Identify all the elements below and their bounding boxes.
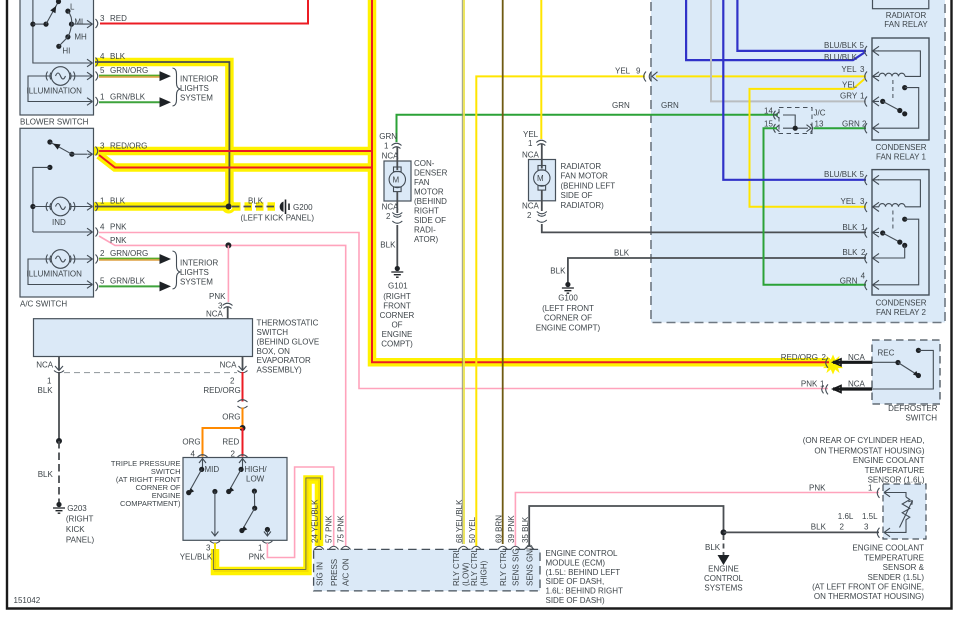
svg-text:G203: G203 xyxy=(67,504,87,513)
A/C illumination lamp xyxy=(46,250,75,269)
relay1 coil xyxy=(878,51,920,77)
svg-text:ORG: ORG xyxy=(182,438,200,447)
svg-text:MOTOR: MOTOR xyxy=(414,188,444,197)
sensor internal resistor xyxy=(888,493,913,533)
J/C pin13 arc xyxy=(807,124,813,133)
svg-text:YEL/BLK: YEL/BLK xyxy=(180,553,213,562)
A/C pin4 wire inside xyxy=(33,228,93,236)
svg-text:1.6L: 1.6L xyxy=(838,512,854,521)
svg-text:151042: 151042 xyxy=(14,596,41,605)
svg-text:CONDENSER: CONDENSER xyxy=(875,143,926,152)
svg-text:5: 5 xyxy=(100,66,105,75)
interior lights brace (AC) xyxy=(173,251,181,289)
svg-text:BOX, ON: BOX, ON xyxy=(257,347,291,356)
wire YEL riser ECM pin50 to relay1 pin3 xyxy=(476,76,645,546)
wire RED to pressure pin2 xyxy=(222,428,242,459)
radiator fan motor M2 xyxy=(529,144,556,212)
svg-text:3: 3 xyxy=(100,14,105,23)
svg-text:YEL: YEL xyxy=(842,81,858,90)
svg-text:4: 4 xyxy=(100,52,105,61)
wire ORG to pressure pin4 xyxy=(182,428,242,459)
svg-text:NCA: NCA xyxy=(522,202,540,211)
wire 5 GRN/ORG (blower) xyxy=(99,71,171,81)
svg-text:ENGINE COOLANT: ENGINE COOLANT xyxy=(852,544,924,553)
J/C pin14 arc xyxy=(774,111,780,120)
svg-text:ORG: ORG xyxy=(222,413,240,422)
svg-text:SIDE OF DASH,: SIDE OF DASH, xyxy=(546,577,605,586)
svg-text:LIGHTS: LIGHTS xyxy=(180,268,209,277)
svg-text:2: 2 xyxy=(386,212,391,221)
svg-text:PANEL): PANEL) xyxy=(66,536,95,545)
svg-text:2: 2 xyxy=(100,249,105,258)
wire BRN riser ECM pin69 xyxy=(502,0,504,544)
pressure switch HIGH/LOW contact xyxy=(226,458,246,495)
svg-text:BLU/BLK: BLU/BLK xyxy=(824,170,858,179)
condenser fan relay 1 box xyxy=(872,38,929,140)
inline connector on RED/ORG xyxy=(238,400,248,409)
svg-text:GRN: GRN xyxy=(612,101,630,110)
svg-text:GRN: GRN xyxy=(842,120,860,129)
svg-text:DENSER: DENSER xyxy=(414,169,448,178)
svg-text:1.5L: 1.5L xyxy=(862,512,878,521)
svg-text:BLK: BLK xyxy=(550,267,566,276)
defroster NCA wire upper xyxy=(826,358,872,368)
svg-text:INTERIOR: INTERIOR xyxy=(180,259,218,268)
svg-text:69 BRN: 69 BRN xyxy=(495,515,504,543)
svg-text:75 PNK: 75 PNK xyxy=(337,515,346,543)
svg-text:BLK: BLK xyxy=(842,248,858,257)
svg-text:SYSTEM: SYSTEM xyxy=(180,94,213,103)
svg-text:ON THERMOSTAT HOUSING): ON THERMOSTAT HOUSING) xyxy=(814,447,924,456)
defroster switch internals xyxy=(872,348,933,389)
blower pin3 arrow xyxy=(87,20,93,28)
svg-text:G101: G101 xyxy=(388,282,408,291)
svg-text:2: 2 xyxy=(527,211,532,220)
svg-text:SIDE OF DASH): SIDE OF DASH) xyxy=(546,596,605,605)
engine coolant temperature sensor box xyxy=(883,484,926,539)
svg-text:GRN: GRN xyxy=(840,277,858,286)
wire 1 GRN/BLK (blower) xyxy=(99,97,171,107)
wire GRY to relay1 pin1 xyxy=(711,0,866,101)
J/C internal wires xyxy=(783,115,808,131)
wire 2 RED/ORG below thermostatic xyxy=(203,372,242,402)
wire RED/ORG lower branch xyxy=(99,155,372,168)
svg-text:SENS GND: SENS GND xyxy=(525,544,534,586)
wire YEL second (relay1 pin3 to relay2 pin3) xyxy=(750,79,867,207)
svg-text:14: 14 xyxy=(764,107,773,116)
wire PNK ECM pin39 to coolant sensor pin1 xyxy=(515,493,879,547)
wire YEL/BLK pressure pin3 to ECM pin24 xyxy=(213,478,320,571)
thermostatic pin 3 top connector xyxy=(206,292,233,319)
A/C switch lower contact wire xyxy=(33,165,53,232)
svg-text:COMPT): COMPT) xyxy=(381,340,413,349)
blower switch common wire xyxy=(30,0,88,63)
wire BLU/BLK second to relay1 pin5 xyxy=(686,0,864,60)
wire BLK dashed to engine control systems xyxy=(718,535,730,565)
svg-text:FAN RELAY 2: FAN RELAY 2 xyxy=(876,308,927,317)
wire 2 GRN/ORG (AC) xyxy=(99,254,171,264)
svg-text:CORNER OF: CORNER OF xyxy=(544,314,592,323)
wire 3 RED/ORG upper (AC to vertical) xyxy=(99,150,372,152)
svg-text:GRN: GRN xyxy=(379,132,397,141)
svg-text:4: 4 xyxy=(861,272,866,281)
svg-text:35 BLK: 35 BLK xyxy=(521,516,530,543)
pressure switch pin3 internal contact xyxy=(211,489,218,536)
defroster NCA wire lower xyxy=(822,384,872,394)
svg-text:2: 2 xyxy=(230,377,235,386)
svg-text:KICK: KICK xyxy=(66,525,85,534)
J/C pin15 arc xyxy=(774,124,780,133)
relay1 pin arcs with arrows xyxy=(865,46,879,133)
svg-text:OF: OF xyxy=(391,321,402,330)
svg-text:(1.5L: BEHIND LEFT: (1.5L: BEHIND LEFT xyxy=(546,568,621,577)
svg-text:SWITCH: SWITCH xyxy=(257,328,289,337)
svg-text:(BEHIND LEFT: (BEHIND LEFT xyxy=(561,181,616,190)
svg-text:24 YEL/BLK: 24 YEL/BLK xyxy=(311,499,320,543)
svg-text:RED: RED xyxy=(110,14,127,23)
svg-text:RLY CTRL: RLY CTRL xyxy=(452,548,461,586)
svg-text:L: L xyxy=(70,3,75,12)
svg-text:SYSTEMS: SYSTEMS xyxy=(704,584,742,593)
svg-text:(BEHIND: (BEHIND xyxy=(414,197,447,206)
svg-text:ENGINE: ENGINE xyxy=(708,565,739,574)
defroster switch box xyxy=(872,340,940,404)
svg-text:A/C ON: A/C ON xyxy=(342,558,351,586)
svg-text:57 PNK: 57 PNK xyxy=(325,515,334,543)
svg-text:M: M xyxy=(537,174,544,183)
svg-text:BLK: BLK xyxy=(380,241,396,250)
svg-text:(RIGHT: (RIGHT xyxy=(66,515,94,524)
blower pin arcs xyxy=(96,19,98,106)
wire BLK G100 to relay2 pin2 xyxy=(568,258,866,282)
svg-text:SYSTEM: SYSTEM xyxy=(180,278,213,287)
svg-text:IND: IND xyxy=(52,218,66,227)
wire GRN J/C pin15 to relay2 pin4 xyxy=(764,128,867,285)
svg-text:BLK: BLK xyxy=(614,249,630,258)
pressure pin3 bottom arc xyxy=(210,541,220,543)
svg-text:1.6L: BEHIND RIGHT: 1.6L: BEHIND RIGHT xyxy=(546,587,623,596)
svg-text:BLK: BLK xyxy=(38,386,54,395)
svg-text:3: 3 xyxy=(864,523,869,532)
svg-text:RADIATOR: RADIATOR xyxy=(886,11,927,20)
svg-text:MH: MH xyxy=(74,33,87,42)
svg-text:GRN/ORG: GRN/ORG xyxy=(110,66,148,75)
svg-text:BLK: BLK xyxy=(110,52,126,61)
svg-text:NCA: NCA xyxy=(522,151,540,160)
inline connector 9 on YEL xyxy=(615,67,658,82)
svg-text:(RIGHT: (RIGHT xyxy=(383,292,411,301)
svg-text:RED/ORG: RED/ORG xyxy=(110,142,147,151)
svg-text:13: 13 xyxy=(815,120,824,129)
svg-text:A/C SWITCH: A/C SWITCH xyxy=(20,300,67,309)
svg-text:NCA: NCA xyxy=(206,310,224,319)
svg-text:ENGINE: ENGINE xyxy=(382,330,413,339)
svg-text:FAN MOTOR: FAN MOTOR xyxy=(561,172,609,181)
svg-text:(LEFT FRONT: (LEFT FRONT xyxy=(542,304,594,313)
svg-text:G200: G200 xyxy=(293,203,313,212)
svg-text:ENGINE COMPT): ENGINE COMPT) xyxy=(536,323,601,332)
svg-text:RED: RED xyxy=(222,438,239,447)
sensor pin1 arc xyxy=(877,488,891,498)
wire 1 BLK (AC) xyxy=(95,204,232,210)
svg-text:1: 1 xyxy=(860,92,865,101)
pressure pin1 bottom arc xyxy=(262,541,272,543)
wire PNK lower branch to ECM pin 75 xyxy=(99,236,346,546)
A/C illumination loop wire xyxy=(28,255,93,288)
svg-text:1: 1 xyxy=(100,197,105,206)
highlight RED/ORG circuit (AC pin3 to defroster) xyxy=(93,0,830,362)
radiator fan relay box (cut off at top) xyxy=(867,0,929,9)
svg-text:ML: ML xyxy=(74,18,86,27)
radiator fan motor pin2 connector xyxy=(522,202,547,223)
svg-text:1: 1 xyxy=(100,93,105,102)
svg-text:RED/ORG: RED/ORG xyxy=(203,386,240,395)
wire 1 BLK to G203 xyxy=(38,372,63,502)
wire YEL connector to relay1 pin3 xyxy=(656,75,866,77)
svg-text:(ON REAR OF CYLINDER HEAD,: (ON REAR OF CYLINDER HEAD, xyxy=(803,436,925,445)
svg-text:YEL: YEL xyxy=(841,197,857,206)
A/C pin arcs xyxy=(96,147,98,292)
condenser fan motor GRN wire to J/C pin14 xyxy=(397,115,779,142)
svg-text:SENS SIG: SENS SIG xyxy=(512,548,521,586)
svg-text:DEFROSTER: DEFROSTER xyxy=(888,404,938,413)
wire BLK dashed to G200 xyxy=(232,206,276,208)
highlight BLK circuit (blower+AC to G200) xyxy=(93,62,277,212)
svg-text:EVAPORATOR: EVAPORATOR xyxy=(257,356,311,365)
svg-text:RIGHT: RIGHT xyxy=(414,207,439,216)
svg-text:NCA: NCA xyxy=(220,361,238,370)
svg-text:ILLUMINATION: ILLUMINATION xyxy=(27,270,83,279)
svg-text:PNK: PNK xyxy=(801,380,818,389)
svg-text:1: 1 xyxy=(384,142,389,151)
svg-text:GRN: GRN xyxy=(661,101,679,110)
wire 4 BLK (blower) xyxy=(95,62,229,207)
blower illumination loop wire xyxy=(28,72,93,105)
svg-text:RLY CTRL: RLY CTRL xyxy=(470,548,479,586)
interior lights brace (blower) xyxy=(173,68,181,106)
svg-text:PRESS: PRESS xyxy=(330,559,339,586)
svg-text:2: 2 xyxy=(840,523,845,532)
highlight YEL/BLK circuit (pressure sw pin3 to ECM pin24) xyxy=(215,480,319,572)
G200 ground connector symbol xyxy=(280,200,289,215)
svg-text:PNK: PNK xyxy=(110,223,127,232)
relay2 switch xyxy=(879,211,919,285)
wire YEL/BLK riser ECM pin68 xyxy=(462,0,464,544)
wire 3 RED (blower) xyxy=(100,0,308,24)
svg-text:FAN: FAN xyxy=(414,178,430,187)
svg-text:TEMPERATURE: TEMPERATURE xyxy=(865,466,925,475)
svg-text:9: 9 xyxy=(636,67,641,76)
svg-text:15: 15 xyxy=(764,120,773,129)
relay2 coil xyxy=(878,180,920,207)
wire PNK pressure pin1 to ECM pin57 xyxy=(267,467,333,558)
svg-text:MID: MID xyxy=(205,465,220,474)
svg-text:5: 5 xyxy=(860,170,865,179)
relay2 pin arcs with arrows xyxy=(865,175,879,290)
svg-text:1: 1 xyxy=(528,139,533,148)
condenser fan motor pin1 arc xyxy=(392,143,402,148)
svg-text:3: 3 xyxy=(860,65,865,74)
svg-text:39 PNK: 39 PNK xyxy=(507,515,516,543)
svg-text:COMPARTMENT): COMPARTMENT) xyxy=(120,499,181,508)
ECM box dashed xyxy=(314,549,540,591)
svg-text:LOW: LOW xyxy=(246,475,265,484)
svg-text:3: 3 xyxy=(100,142,105,151)
svg-text:ENGINE COOLANT: ENGINE COOLANT xyxy=(853,456,925,465)
svg-text:3: 3 xyxy=(206,544,211,553)
svg-text:ILLUMINATION: ILLUMINATION xyxy=(27,87,83,96)
thermostatic pin 2 (right, NCA) xyxy=(220,357,248,373)
svg-text:NCA: NCA xyxy=(36,361,54,370)
triple pressure switch box xyxy=(183,458,287,541)
svg-text:ASSEMBLY): ASSEMBLY) xyxy=(257,366,303,375)
svg-text:PNK: PNK xyxy=(209,292,226,301)
svg-text:MODULE (ECM): MODULE (ECM) xyxy=(546,558,606,567)
svg-text:BLU/BLK: BLU/BLK xyxy=(824,53,858,62)
svg-text:ATOR): ATOR) xyxy=(414,235,438,244)
svg-text:BLK: BLK xyxy=(248,197,264,206)
svg-text:1: 1 xyxy=(47,377,52,386)
svg-text:RADIATOR): RADIATOR) xyxy=(561,201,605,210)
svg-text:ENGINE CONTROL: ENGINE CONTROL xyxy=(546,549,619,558)
ground G100 xyxy=(562,282,574,293)
svg-text:CONTROL: CONTROL xyxy=(704,574,744,583)
A/C switch box xyxy=(20,128,94,297)
svg-text:5: 5 xyxy=(860,41,865,50)
pressure switch pin4 arc xyxy=(198,455,208,457)
svg-text:GRY: GRY xyxy=(840,92,858,101)
wire GRN 2 J/C pin13 to relay1 pin2 xyxy=(814,127,867,129)
svg-text:RADIATOR: RADIATOR xyxy=(561,162,602,171)
svg-text:BLK: BLK xyxy=(842,223,858,232)
thermostatic switch box xyxy=(34,319,253,357)
svg-text:TEMPERATURE: TEMPERATURE xyxy=(864,553,924,562)
svg-text:2: 2 xyxy=(822,353,827,362)
svg-text:FAN RELAY: FAN RELAY xyxy=(884,20,928,29)
blower pin4 arrow xyxy=(87,59,93,67)
relay1 switch xyxy=(879,80,919,128)
svg-text:GRN/BLK: GRN/BLK xyxy=(110,93,146,102)
svg-text:PNK: PNK xyxy=(809,484,826,493)
svg-text:SIDE OF: SIDE OF xyxy=(561,191,593,200)
ground G101 xyxy=(391,266,403,277)
svg-text:3: 3 xyxy=(860,197,865,206)
blower switch speed contacts L ML MH HI xyxy=(56,9,92,49)
svg-text:BLK: BLK xyxy=(38,470,54,479)
svg-text:FRONT: FRONT xyxy=(383,302,411,311)
svg-text:FAN RELAY 1: FAN RELAY 1 xyxy=(876,153,927,162)
fan relays dashed container box xyxy=(651,0,945,323)
svg-text:ON THERMOSTAT HOUSING): ON THERMOSTAT HOUSING) xyxy=(814,592,924,601)
svg-text:HI: HI xyxy=(62,47,70,56)
A/C IND lamp xyxy=(30,197,92,216)
svg-text:NCA: NCA xyxy=(848,380,866,389)
svg-text:BLK: BLK xyxy=(110,197,126,206)
svg-text:NCA: NCA xyxy=(848,353,866,362)
svg-text:GRN/BLK: GRN/BLK xyxy=(110,277,146,286)
wire BLU/BLK vertical to relay1 pin5 xyxy=(737,0,866,51)
condenser fan relay 2 box xyxy=(872,170,929,295)
ground G203 xyxy=(53,502,65,513)
svg-text:BLU/BLK: BLU/BLK xyxy=(824,41,858,50)
svg-text:4: 4 xyxy=(100,223,105,232)
svg-text:SWITCH: SWITCH xyxy=(905,414,937,423)
svg-text:INTERIOR: INTERIOR xyxy=(180,75,218,84)
svg-text:PNK: PNK xyxy=(249,553,266,562)
svg-text:SIG IN: SIG IN xyxy=(316,562,325,586)
svg-text:RADI-: RADI- xyxy=(414,226,436,235)
svg-text:HIGH/: HIGH/ xyxy=(244,465,267,474)
svg-text:(BEHIND GLOVE: (BEHIND GLOVE xyxy=(257,337,320,346)
wire BLK ECM pin35 to coolant sensor xyxy=(529,506,879,546)
sensor pin2/3 arc xyxy=(877,528,891,538)
svg-text:SENSOR (1.6L): SENSOR (1.6L) xyxy=(868,475,925,484)
svg-text:68 YEL/BLK: 68 YEL/BLK xyxy=(455,499,464,543)
thermostatic pin 1 (left, NCA) xyxy=(36,357,64,373)
A/C switch blade contacts xyxy=(47,139,92,158)
svg-text:RED/ORG: RED/ORG xyxy=(781,353,818,362)
svg-text:(AT LEFT FRONT OF ENGINE,: (AT LEFT FRONT OF ENGINE, xyxy=(812,583,924,592)
svg-text:J/C: J/C xyxy=(814,109,826,118)
blower switch blade xyxy=(46,0,61,24)
condenser fan motor pin2 connector xyxy=(382,203,403,224)
dashed NCA link line xyxy=(64,372,237,374)
svg-text:1: 1 xyxy=(258,544,263,553)
condenser fan motor M1 xyxy=(384,147,411,214)
svg-text:SENSOR &: SENSOR & xyxy=(883,563,925,572)
svg-text:SIDE OF: SIDE OF xyxy=(414,216,446,225)
wire BLU/BLK to relay2 pin5 xyxy=(723,0,866,180)
highlight starburst at defroster junction xyxy=(823,355,843,375)
radiator fan motor YEL wire xyxy=(540,0,542,139)
svg-text:G100: G100 xyxy=(558,294,578,303)
svg-text:YEL: YEL xyxy=(615,67,631,76)
blower switch box xyxy=(20,0,94,115)
pressure switch MID contact xyxy=(186,458,206,496)
svg-text:(LEFT KICK PANEL): (LEFT KICK PANEL) xyxy=(241,214,315,223)
wire 4 PNK (AC to defroster) xyxy=(99,233,828,389)
ECM pin arcs xyxy=(314,546,534,549)
wire BLK to G101 xyxy=(396,225,398,266)
svg-text:PNK: PNK xyxy=(110,236,127,245)
svg-text:BLOWER SWITCH: BLOWER SWITCH xyxy=(20,118,89,127)
wire ORG segment with junction xyxy=(222,408,245,432)
svg-text:THERMOSTATIC: THERMOSTATIC xyxy=(257,319,319,328)
svg-text:1: 1 xyxy=(868,484,873,493)
svg-text:YEL: YEL xyxy=(523,130,539,139)
svg-text:LIGHTS: LIGHTS xyxy=(180,84,209,93)
pressure switch pin2 arc xyxy=(238,455,248,457)
svg-text:5: 5 xyxy=(100,277,105,286)
svg-text:GRN/ORG: GRN/ORG xyxy=(110,249,148,258)
pressure switch pin1 internal contacts xyxy=(239,489,271,537)
blower illumination lamp xyxy=(46,67,75,86)
svg-text:REC: REC xyxy=(878,349,895,358)
wire PNK branch to thermostatic switch pin3 xyxy=(227,245,229,302)
svg-text:YEL: YEL xyxy=(841,65,857,74)
svg-text:RLY CTRL: RLY CTRL xyxy=(499,548,508,586)
svg-text:BLK: BLK xyxy=(811,523,827,532)
svg-text:CONDENSER: CONDENSER xyxy=(875,299,926,308)
svg-text:50 YEL: 50 YEL xyxy=(468,516,477,543)
svg-text:BLK: BLK xyxy=(705,543,721,552)
svg-text:(HIGH): (HIGH) xyxy=(479,560,488,586)
svg-text:SENDER (1.5L): SENDER (1.5L) xyxy=(868,573,925,582)
junction connector J/C box xyxy=(764,107,826,134)
radiator fan motor pin1 arc xyxy=(536,140,546,145)
svg-text:CON-: CON- xyxy=(414,159,435,168)
svg-text:NCA: NCA xyxy=(382,203,400,212)
